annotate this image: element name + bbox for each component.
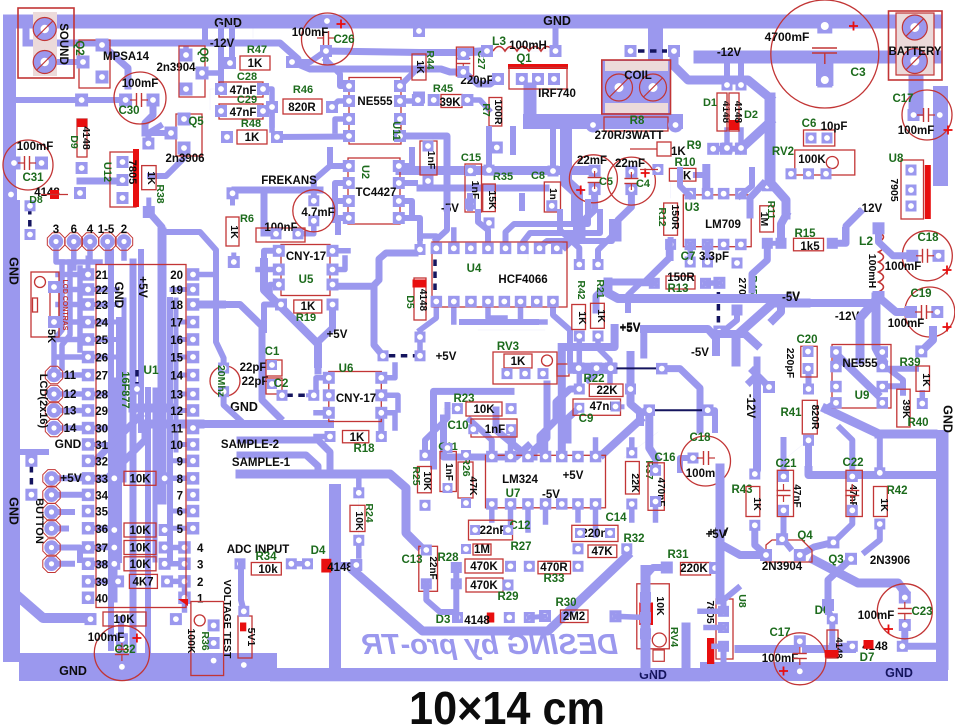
wire FREKANS drop (261, 190, 268, 233)
svg-text:1k5: 1k5 (800, 241, 820, 253)
node GND left vertical 1 (7, 257, 21, 285)
capacitor C10 (447, 419, 517, 437)
wire sample bus 1b (200, 420, 240, 428)
svg-text:28: 28 (95, 390, 108, 402)
wire under4066 b (478, 329, 545, 331)
svg-text:37: 37 (95, 543, 108, 555)
U1 left pin numbers (95, 270, 108, 605)
wire lm b7 (593, 504, 599, 535)
wire dash2 l (645, 408, 649, 413)
svg-text:R29: R29 (497, 591, 518, 603)
svg-text:2M2: 2M2 (563, 611, 585, 623)
resistor R30 (539, 597, 622, 623)
wire c21 up (784, 440, 809, 477)
svg-text:100K: 100K (798, 154, 826, 166)
resistor R26 (458, 450, 479, 508)
svg-text:R35: R35 (493, 171, 513, 183)
svg-text:10pF: 10pF (821, 121, 848, 133)
wire r30 to rv4 (616, 616, 646, 617)
node GND bottom-mid (639, 668, 667, 682)
wire ring A (434, 391, 512, 466)
svg-text:U4: U4 (467, 263, 482, 275)
svg-text:1-5: 1-5 (98, 224, 115, 236)
wire u3 b2 (705, 244, 711, 262)
inductor L2 (859, 222, 885, 303)
wire c22 dn (833, 510, 852, 542)
wire lm p4 (543, 442, 549, 457)
svg-text:GND: GND (7, 257, 21, 285)
wire R10 to U3 (702, 168, 710, 194)
svg-text:40: 40 (95, 593, 108, 605)
wire bar stub b (252, 28, 254, 38)
svg-text:35: 35 (95, 507, 108, 519)
wire R10 right (696, 172, 706, 178)
wire U11 l3 (335, 119, 349, 131)
wire diag pins31-32 b (95, 425, 145, 478)
wire hdr drop 3 (87, 247, 93, 258)
transistor Q4 (760, 530, 813, 562)
svg-text:-12V: -12V (210, 38, 235, 50)
svg-text:39: 39 (95, 577, 108, 589)
resistor R15 1k5 (776, 228, 838, 253)
wire c20 l (753, 371, 769, 387)
svg-text:1M: 1M (474, 544, 490, 556)
wire vertical bus x115 (113, 380, 118, 600)
resistor R39b 39K (897, 357, 929, 429)
wire +5 row (240, 470, 352, 479)
wire hdr verticals (54, 258, 88, 368)
wire vertical bus x111 (108, 252, 114, 648)
capacitor C7 3.3pF (681, 251, 729, 263)
wire lm p2 (508, 438, 514, 457)
wire btn link4 (58, 526, 66, 532)
svg-text:7: 7 (177, 490, 183, 502)
svg-text:27: 27 (95, 371, 108, 383)
svg-text:100mF: 100mF (122, 78, 158, 90)
svg-text:FREKANS: FREKANS (261, 175, 317, 187)
wire Q6 top (183, 43, 189, 55)
wire pin stub R (172, 355, 188, 360)
wire sample-2 route (240, 440, 330, 470)
svg-text:1K: 1K (245, 132, 260, 144)
wire bus y188 (420, 185, 546, 192)
node +5V LCD (60, 471, 82, 485)
wire stub c (557, 212, 563, 232)
svg-text:4700mF: 4700mF (765, 30, 810, 44)
wire R44 top (416, 28, 422, 31)
svg-text:1K: 1K (576, 311, 588, 325)
label -12V top right (717, 47, 742, 59)
svg-text:470K: 470K (470, 561, 498, 573)
wire to Q5 (145, 130, 171, 136)
capacitor C29 (215, 94, 269, 119)
diode 5V1 (238, 606, 257, 671)
VOLTAGE TEST label (221, 580, 233, 660)
svg-text:33: 33 (95, 474, 108, 486)
svg-text:30: 30 (95, 424, 108, 436)
label R29 (497, 591, 518, 603)
svg-text:R46: R46 (293, 84, 313, 96)
svg-text:100mF: 100mF (762, 653, 798, 665)
wire u9 to 1k (882, 366, 916, 372)
wire LCD to MCU stub (58, 287, 83, 293)
svg-text:10K: 10K (129, 559, 151, 571)
svg-text:C28: C28 (237, 71, 257, 83)
svg-text:Q3: Q3 (828, 554, 843, 566)
wire U2 tl (330, 150, 349, 166)
label -5V mid (691, 347, 709, 359)
wire u9 r3 (885, 383, 903, 389)
wire pin stub R (172, 320, 188, 325)
resistor R33 470R (524, 561, 584, 585)
wire vertical bus x162 (158, 232, 167, 500)
svg-text:1K: 1K (511, 356, 526, 368)
resistor R46 (266, 84, 338, 114)
svg-text:MPSA14: MPSA14 (103, 51, 150, 63)
svg-text:12: 12 (64, 389, 77, 401)
svg-text:Q2: Q2 (73, 40, 85, 55)
svg-text:17: 17 (170, 318, 183, 330)
wire right GND bar upper (933, 86, 948, 186)
wire c18 left (879, 228, 913, 256)
svg-text:2: 2 (121, 224, 127, 236)
wire diag c (750, 184, 763, 215)
svg-text:10K: 10K (113, 614, 135, 626)
wire q3 pad dn (825, 605, 831, 612)
capacitor C12 22nF (469, 520, 531, 540)
svg-text:5: 5 (177, 524, 184, 536)
wire FREKANS route (235, 187, 320, 194)
svg-text:R31: R31 (667, 549, 689, 561)
LCD header pads (45, 366, 62, 436)
wire bar drop -12V (23, 28, 30, 43)
BUTTON label (33, 498, 45, 544)
svg-text:SAMPLE-1: SAMPLE-1 (232, 457, 291, 469)
resistor R37 22K (626, 447, 656, 509)
svg-text:R47: R47 (247, 44, 267, 56)
svg-text:GND: GND (55, 437, 82, 451)
connector BATTERY (888, 11, 942, 80)
wire pin stub R (172, 392, 188, 397)
capacitor 4.7mF (293, 190, 335, 232)
wire r15 up right (832, 212, 860, 243)
wire C30 down (145, 100, 153, 133)
resistor R10 (640, 157, 696, 183)
svg-text:CNY-17: CNY-17 (336, 393, 376, 405)
svg-text:C17: C17 (769, 627, 790, 639)
red triangle pin1 (178, 599, 188, 606)
wire vertical GND bus x133 (130, 262, 137, 660)
svg-text:D1: D1 (703, 97, 717, 109)
svg-text:36: 36 (95, 524, 108, 536)
label -12V right (858, 203, 883, 215)
mirrored text DESING by pro-TR (362, 629, 618, 661)
wire c28 left (210, 89, 221, 110)
svg-text:26: 26 (95, 353, 108, 365)
caption 10x14 cm (409, 682, 605, 727)
svg-text:+5V: +5V (706, 529, 727, 541)
svg-text:VOLTAGE TEST: VOLTAGE TEST (221, 580, 233, 660)
svg-text:100mF: 100mF (888, 318, 924, 330)
wire horiz y408 (133, 404, 172, 413)
wire u8b l1 (700, 609, 724, 615)
svg-text:D7: D7 (860, 652, 875, 664)
svg-text:U6: U6 (339, 363, 354, 375)
svg-text:7805: 7805 (126, 160, 138, 184)
wire band down left of C5 (566, 129, 577, 218)
svg-text:100mF: 100mF (898, 125, 934, 137)
wire 270R down (720, 310, 737, 334)
svg-text:+5V: +5V (436, 351, 457, 363)
capacitor 22pF a (240, 360, 282, 376)
wire vert x770 (765, 98, 776, 182)
wire -12V elbow (674, 51, 770, 98)
svg-text:Q6: Q6 (197, 47, 209, 62)
svg-text:10k: 10k (258, 564, 278, 576)
wire r13 left (628, 283, 654, 310)
svg-text:U9: U9 (855, 390, 870, 402)
svg-text:+5V: +5V (60, 471, 82, 485)
svg-text:GND: GND (941, 405, 955, 433)
svg-text:BUTTON: BUTTON (33, 498, 45, 544)
wire vertical bus x176 (174, 300, 179, 450)
label +5V r redraw (706, 529, 727, 541)
wire c9 right (614, 404, 622, 409)
wire pin stub R (172, 458, 188, 463)
capacitor C19 right (888, 287, 955, 337)
resistor R21 (591, 259, 608, 342)
svg-text:U7: U7 (506, 488, 521, 500)
wire u9 tl (833, 352, 839, 367)
header J pads 3/6/4/1-5/2 (47, 233, 132, 250)
wire left GND bar upper (3, 15, 16, 210)
wire U5 left (264, 251, 279, 262)
wire U6 r1 (381, 365, 395, 378)
wire U5 to D5 hook (332, 253, 415, 286)
svg-text:C3: C3 (850, 65, 866, 79)
wire left link (716, 334, 757, 345)
wire coil feed vert (648, 28, 663, 62)
svg-text:39K: 39K (439, 97, 461, 109)
svg-text:R42: R42 (886, 485, 907, 497)
resistor R38b 1K (915, 345, 932, 409)
wire U5 right (333, 248, 349, 254)
wire r15 left (772, 241, 781, 246)
capacitor C4 (607, 157, 655, 205)
wire hdr2 drop (213, 262, 219, 275)
wire stub (432, 136, 434, 150)
wire D1 top (724, 57, 730, 80)
op-amp U7 LM324 (486, 451, 606, 510)
wire u3 b1 (687, 244, 693, 262)
svg-text:6: 6 (71, 224, 77, 236)
svg-text:100mF: 100mF (292, 27, 328, 39)
wire r24 low (356, 540, 362, 556)
wire stub p18 right (198, 301, 222, 309)
wire bus y170 (400, 166, 592, 175)
capacitor 22pF b (242, 376, 289, 394)
capacitor C8 (531, 166, 561, 213)
wire lm b1 (489, 504, 495, 520)
svg-text:9: 9 (177, 456, 183, 468)
wire r42 dn (865, 524, 880, 552)
wire ring B2 (444, 418, 529, 457)
svg-text:10×14 cm: 10×14 cm (409, 682, 605, 727)
wire u4 p4 (478, 212, 488, 248)
U1 16F877 outline (96, 265, 186, 608)
wire dash link (588, 369, 611, 380)
wire c9 left (568, 408, 579, 440)
wire diag to U6 (315, 364, 322, 371)
wire horiz y424 (143, 420, 200, 429)
wire 10K rows right3 (165, 561, 185, 567)
wire r42 down (577, 336, 583, 384)
wire U2 r1 (399, 150, 412, 166)
voltage test pads (208, 619, 220, 666)
timer U9 NE555 (830, 345, 891, 409)
resistor R45b 270R (732, 258, 760, 316)
wire dash2 r (707, 410, 715, 430)
wire +5V corner (562, 328, 615, 347)
svg-text:20: 20 (170, 270, 183, 282)
wire vertical bus x124 (122, 300, 127, 480)
wire ring B (444, 409, 516, 457)
svg-text:C4: C4 (636, 178, 651, 190)
svg-text:220pF: 220pF (784, 348, 796, 379)
capacitor C26 (292, 13, 355, 65)
svg-text:10K: 10K (129, 473, 151, 485)
svg-text:SOUND: SOUND (57, 23, 69, 65)
svg-text:U1: U1 (143, 363, 159, 377)
wire big diagonal (354, 556, 627, 631)
node GND label U1 (112, 282, 126, 309)
svg-text:-5V: -5V (691, 347, 709, 359)
svg-text:C9: C9 (579, 413, 594, 425)
capacitor C16 470nF (648, 452, 676, 510)
svg-text:R36: R36 (199, 631, 211, 650)
wire C5 down (582, 191, 595, 236)
wire link (826, 403, 836, 409)
svg-text:16: 16 (170, 335, 183, 347)
svg-text:C15: C15 (461, 152, 481, 164)
diode D8 (5, 187, 86, 206)
svg-text:GND: GND (112, 282, 126, 309)
wire y434 (879, 430, 933, 439)
wire lm b2 (508, 504, 514, 524)
wire c16 up (653, 458, 659, 470)
opto-isolator U6 CNY-17 (323, 363, 388, 422)
wire vertical bus x170 (167, 300, 173, 560)
svg-text:C18: C18 (917, 232, 939, 244)
svg-text:C32: C32 (114, 644, 135, 656)
wire btn links5 (58, 548, 80, 561)
label -12V right2 (835, 311, 860, 323)
svg-text:U11: U11 (390, 121, 402, 141)
wire to Q1 gate (463, 72, 497, 84)
svg-text:4K7: 4K7 (132, 576, 153, 588)
wire vertical bus x155 (153, 390, 158, 560)
wire pin stub R (172, 337, 188, 342)
svg-text:100mH: 100mH (866, 254, 878, 288)
trimmer RV4 (637, 584, 680, 662)
svg-text:U8: U8 (889, 153, 904, 165)
wire r31 left (646, 568, 667, 577)
svg-text:D4: D4 (311, 545, 326, 557)
R36 100K label (185, 628, 197, 654)
wire btn links6 (58, 561, 72, 567)
svg-text:2n3904: 2n3904 (156, 62, 196, 74)
svg-text:100mF: 100mF (885, 261, 921, 273)
label ADC INPUT (227, 544, 290, 556)
wire d5 down (417, 337, 423, 352)
svg-text:13: 13 (170, 390, 183, 402)
resistor R47 (224, 44, 298, 70)
svg-text:4: 4 (197, 543, 204, 555)
wire U6 l3 (316, 410, 329, 416)
svg-text:U5: U5 (299, 274, 314, 286)
wire lm b3 (525, 504, 531, 530)
svg-text:SAMPLE-2: SAMPLE-2 (221, 439, 279, 451)
wire d7 l (832, 643, 852, 650)
wire band stub (510, 129, 516, 152)
wire diag b (624, 432, 658, 458)
resistor 4K7 (112, 574, 173, 588)
svg-text:22mF: 22mF (577, 155, 607, 167)
wire hdr drop 5 (121, 247, 127, 258)
wire u4 p1 (420, 236, 436, 248)
wire sample bus 1 (240, 420, 330, 428)
resistor R25 (410, 450, 433, 511)
node GND mid-left label (230, 400, 258, 414)
node GND right vertical (941, 405, 955, 433)
wire pin stub R (172, 373, 188, 378)
trimmer RV3 (493, 341, 569, 384)
capacitor C23 (858, 584, 933, 639)
svg-text:-5V: -5V (441, 203, 459, 215)
svg-text:2: 2 (197, 577, 203, 589)
svg-text:2N3906: 2N3906 (870, 555, 910, 567)
wire c17b route (739, 645, 796, 653)
wire C26 bottom (323, 51, 329, 62)
RV LCD-CONTRAS outline (31, 272, 60, 337)
resistor 47K b (573, 543, 633, 558)
wire c20-r41 (806, 368, 812, 389)
svg-text:GND: GND (885, 666, 913, 680)
wire vertical bus x148 (145, 390, 151, 655)
capacitor C22 (842, 457, 863, 517)
svg-text:220K: 220K (680, 563, 708, 575)
wire to 100nF (264, 231, 276, 237)
svg-text:R22: R22 (583, 373, 604, 385)
svg-text:4: 4 (87, 224, 94, 236)
wire R19 left (264, 305, 281, 331)
U1 16F877 left pin column pads 21-40 (82, 268, 95, 604)
wire sound to Q2 (45, 59, 83, 65)
svg-text:L3: L3 (492, 34, 506, 48)
svg-text:R26: R26 (460, 457, 472, 476)
svg-text:Q1: Q1 (516, 53, 532, 65)
wire C32 gnd (118, 640, 124, 668)
wire u4 b6 (521, 302, 546, 323)
wire to crystal (216, 262, 224, 368)
wire u8b (724, 588, 739, 611)
connector COIL (602, 60, 671, 114)
diode D1 (703, 80, 733, 132)
wire vertical +5V bus x141 (138, 252, 144, 430)
svg-text:1nF: 1nF (443, 463, 454, 481)
resistor R24 (350, 487, 375, 546)
wire lm p7 (593, 440, 599, 457)
